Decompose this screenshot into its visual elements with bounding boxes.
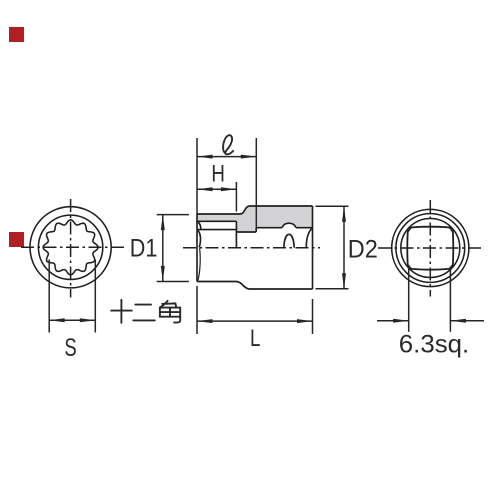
counterbore jog bbox=[255, 228, 257, 232]
S extension line right bbox=[94, 260, 96, 333]
l extension line left bbox=[196, 138, 198, 214]
pin hole dome bbox=[282, 223, 296, 228]
left view 12-point profile bbox=[43, 220, 98, 275]
left view horizontal centerline bbox=[21, 246, 124, 248]
left face chamfer arc lower bbox=[198, 248, 200, 280]
svg-text:D2: D2 bbox=[348, 236, 378, 264]
red marker square top-left bbox=[9, 27, 24, 42]
svg-text:D1: D1 bbox=[130, 235, 158, 263]
square drive hole side left bbox=[407, 230, 410, 267]
S dimension arrowheads bbox=[49, 318, 95, 322]
right face chamfer arc bbox=[306, 229, 311, 248]
bore wall line right of pin hole bbox=[296, 227, 313, 229]
square hole top line bbox=[197, 220, 236, 222]
label l (script ell) bbox=[223, 135, 233, 154]
svg-text:S: S bbox=[64, 334, 76, 362]
l extension line right bbox=[255, 138, 257, 228]
L extension line left bbox=[196, 286, 198, 334]
right view middle circle bbox=[396, 214, 465, 283]
neck top edge with step S-curve bbox=[197, 206, 250, 214]
6.3sq extension line right bbox=[449, 267, 451, 332]
bore wall line left of pin hole bbox=[256, 227, 282, 229]
6.3sq dimension line left part bbox=[377, 320, 409, 322]
D1 tick bottom bbox=[157, 281, 189, 283]
section gray fill bbox=[197, 206, 313, 232]
D1 tick top bbox=[157, 214, 189, 216]
H dimension line bbox=[197, 188, 236, 190]
svg-text:L: L bbox=[250, 325, 260, 352]
bottom step S-curve bbox=[237, 282, 250, 290]
L extension line right bbox=[312, 299, 314, 334]
right view outer circle bbox=[392, 209, 469, 286]
left face chamfer arc mid bbox=[198, 231, 201, 248]
svg-text:6.3sq.: 6.3sq. bbox=[399, 331, 469, 359]
side view centerline bbox=[183, 247, 320, 249]
label 十二角 (drawn strokes) bbox=[111, 300, 180, 323]
pin hole inner ellipse bbox=[284, 234, 294, 247]
right view horizontal centerline bbox=[378, 247, 484, 249]
6.3sq arrowheads bbox=[393, 319, 466, 323]
right view vertical centerline bbox=[429, 200, 431, 297]
left face edge bbox=[196, 214, 198, 282]
kanji 十 bbox=[111, 300, 132, 323]
square hole end edge bbox=[235, 221, 237, 247]
D2 dimension line bbox=[343, 206, 345, 289]
body bottom edge bbox=[250, 288, 313, 290]
square drive hole side right bbox=[451, 230, 454, 267]
dimension arrowheads center view bbox=[161, 155, 346, 324]
D1 dimension line bbox=[162, 215, 164, 282]
neck bottom edge bbox=[197, 281, 237, 283]
l dimension line bbox=[197, 156, 256, 158]
H extension line right bbox=[235, 182, 237, 212]
counterbore bottom line bbox=[236, 231, 256, 233]
kanji 角 bbox=[160, 301, 168, 308]
right face edge bbox=[312, 206, 314, 289]
kanji 二 bbox=[133, 305, 155, 321]
body top edge bbox=[250, 205, 313, 207]
square drive hole side bottom bbox=[410, 267, 451, 270]
6.3sq dimension line right part bbox=[450, 320, 484, 322]
L dimension line bbox=[197, 320, 313, 322]
6.3sq extension line left bbox=[408, 267, 410, 332]
square drive hole side top bbox=[410, 227, 451, 230]
right view inner circle bbox=[401, 219, 460, 278]
D2 tick bottom bbox=[316, 288, 349, 290]
S extension line left bbox=[48, 260, 50, 333]
left view outer circle bbox=[30, 207, 111, 288]
svg-text:H: H bbox=[211, 161, 225, 188]
S dimension line bbox=[49, 319, 95, 321]
red marker square mid-left bbox=[9, 232, 24, 247]
left view vertical centerline bbox=[70, 199, 72, 298]
left face chamfer arc upper bbox=[198, 222, 201, 229]
D2 tick top bbox=[316, 205, 349, 207]
square hole flat line bbox=[197, 229, 236, 231]
left view chamfer circle bbox=[38, 215, 102, 279]
